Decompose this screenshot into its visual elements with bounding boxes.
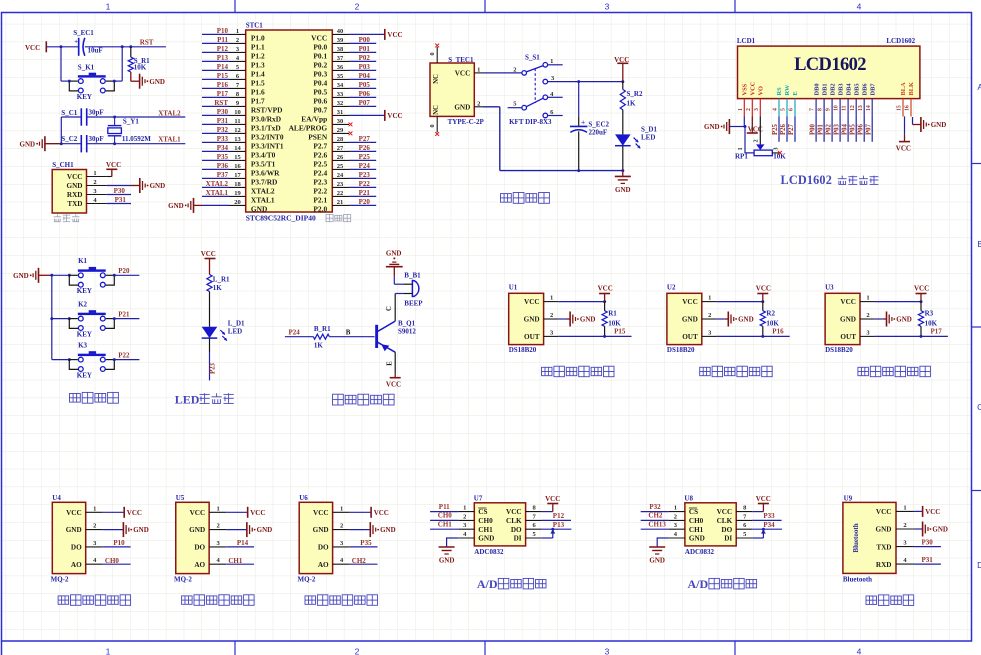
svg-text:VCC: VCC <box>66 509 82 517</box>
svg-text:P11: P11 <box>439 503 450 511</box>
svg-text:24: 24 <box>337 172 344 179</box>
svg-text:P03: P03 <box>833 123 840 135</box>
ground GND (U3 pin2) <box>875 318 883 320</box>
svg-text:VCC: VCC <box>914 285 929 293</box>
svg-text:6: 6 <box>789 108 795 111</box>
svg-text:10K: 10K <box>608 319 621 327</box>
svg-text:2: 2 <box>866 312 869 319</box>
wire U7 CS input <box>430 511 458 513</box>
svg-text:P1.5: P1.5 <box>251 78 265 87</box>
svg-text:DB5: DB5 <box>853 83 860 95</box>
zone dividers bottom <box>234 641 236 655</box>
wire U7 DO to P13 <box>542 528 572 530</box>
wire P30 (S_CH1 pin3) <box>107 194 131 196</box>
wire U7 DI riser <box>542 537 553 539</box>
svg-text:KEY: KEY <box>77 287 92 295</box>
svg-text:P1.0: P1.0 <box>251 33 265 42</box>
svg-text:12: 12 <box>850 105 856 111</box>
svg-text:AO: AO <box>71 561 82 569</box>
ground GND (U8 pin4) <box>657 538 669 547</box>
svg-text:P05: P05 <box>849 123 856 135</box>
svg-text:+: + <box>74 39 78 46</box>
svg-text:P17: P17 <box>931 328 943 336</box>
svg-text:CH0: CH0 <box>689 517 704 525</box>
svg-text:A/D: A/D <box>477 577 498 591</box>
svg-text:OUT: OUT <box>524 333 540 341</box>
power port VCC (S_CH1 pin1) <box>107 176 112 178</box>
ground GND (U5 pin2) <box>226 529 247 531</box>
svg-text:KFT DIP-8X3: KFT DIP-8X3 <box>509 118 552 126</box>
svg-text:2: 2 <box>903 522 906 529</box>
svg-text:P3.1/TxD: P3.1/TxD <box>251 123 281 132</box>
svg-text:L_D1: L_D1 <box>228 319 245 327</box>
power port VCC (U6 pin1) <box>350 511 371 513</box>
svg-text:VCC: VCC <box>524 298 540 306</box>
svg-text:P04: P04 <box>841 123 848 135</box>
svg-text:B: B <box>977 239 981 249</box>
svg-text:VSS: VSS <box>742 83 749 95</box>
svg-text:S_K1: S_K1 <box>78 63 95 71</box>
wire U6 DO to P35 <box>350 546 378 548</box>
svg-text:1: 1 <box>866 295 869 302</box>
svg-text:XTAL1: XTAL1 <box>206 189 229 197</box>
title smoke module (U4) <box>58 595 131 606</box>
svg-text:P2.2: P2.2 <box>313 186 327 195</box>
svg-text:20: 20 <box>234 199 241 206</box>
svg-text:DO: DO <box>721 526 732 534</box>
svg-text:12: 12 <box>234 127 241 134</box>
svg-text:S9012: S9012 <box>398 327 416 335</box>
svg-text:DO: DO <box>318 544 329 552</box>
svg-text:P11: P11 <box>217 36 228 44</box>
svg-text:DB2: DB2 <box>829 83 836 95</box>
svg-text:S_EC1: S_EC1 <box>73 29 94 37</box>
title button circuit <box>70 392 119 403</box>
svg-text:U7: U7 <box>474 494 483 502</box>
wire U7 CLK to P12 <box>542 519 571 521</box>
svg-text:1: 1 <box>708 295 711 302</box>
ground GND (U2 pin2) <box>716 318 724 320</box>
svg-text:ADC0832: ADC0832 <box>685 548 715 556</box>
svg-text:1: 1 <box>550 58 553 65</box>
svg-text:STC89C52RC_DIP40: STC89C52RC_DIP40 <box>246 213 316 222</box>
svg-text:17: 17 <box>234 172 241 179</box>
svg-text:1: 1 <box>236 28 239 35</box>
wire key left riser <box>60 47 62 81</box>
svg-text:GND: GND <box>150 182 166 190</box>
svg-text:P00: P00 <box>359 36 371 44</box>
svg-text:15: 15 <box>234 154 241 161</box>
power port VCC (U5 pin1) <box>226 511 247 513</box>
power port VCC (lcd pin2) <box>751 117 753 134</box>
svg-text:P2.1: P2.1 <box>313 195 327 204</box>
svg-text:5: 5 <box>781 108 787 111</box>
svg-text:KEY: KEY <box>77 330 92 338</box>
svg-text:VCC: VCC <box>455 70 471 78</box>
svg-text:RW: RW <box>784 84 791 95</box>
svg-text:LCD1: LCD1 <box>737 37 756 45</box>
svg-text:11.0592M: 11.0592M <box>122 135 151 143</box>
svg-text:29: 29 <box>337 127 344 134</box>
svg-text:1K: 1K <box>627 100 637 108</box>
svg-text:P30: P30 <box>114 187 126 195</box>
svg-text:P00: P00 <box>809 123 816 135</box>
svg-text:2: 2 <box>217 523 220 530</box>
S_TEC1 pin2 wire down to gnd rail <box>474 106 483 108</box>
S_TEC1 pin1 wire to switch <box>474 72 483 74</box>
svg-text:P35: P35 <box>360 539 372 547</box>
svg-text:CH0: CH0 <box>105 557 120 565</box>
wire emitter <box>394 352 396 373</box>
wire base <box>329 336 374 338</box>
svg-text:P32: P32 <box>649 503 661 511</box>
svg-text:7: 7 <box>810 108 816 111</box>
svg-text:40: 40 <box>337 28 344 35</box>
svg-text:GND: GND <box>149 78 165 86</box>
svg-text:3: 3 <box>605 2 610 12</box>
resistor R2 10K <box>762 302 764 311</box>
svg-text:DS18B20: DS18B20 <box>825 346 853 354</box>
wire gnd rail <box>500 170 623 172</box>
potentiometer RP1 10K <box>756 144 764 150</box>
svg-text:U8: U8 <box>684 494 693 502</box>
svg-text:P17: P17 <box>217 90 229 98</box>
svg-text:10uF: 10uF <box>88 47 103 55</box>
svg-text:GND: GND <box>168 202 184 210</box>
ground GND (buttons) <box>38 268 40 283</box>
svg-text:MQ-2: MQ-2 <box>174 576 192 584</box>
svg-text:P13: P13 <box>553 521 565 529</box>
svg-text:P12: P12 <box>217 45 229 53</box>
svg-text:P3.0/RxD: P3.0/RxD <box>251 114 281 123</box>
svg-text:P30: P30 <box>217 108 229 116</box>
svg-text:GND: GND <box>524 316 540 324</box>
svg-text:10: 10 <box>834 105 840 111</box>
svg-text:26: 26 <box>337 154 344 161</box>
svg-text:VCC: VCC <box>840 298 856 306</box>
wire P24 to B_R1 <box>285 336 313 338</box>
switch stub pin6 <box>548 115 563 117</box>
svg-text:2: 2 <box>477 100 480 107</box>
svg-text:VCC: VCC <box>750 81 757 95</box>
power port VCC (buzzer) <box>394 373 396 377</box>
svg-text:U3: U3 <box>825 284 834 292</box>
ground GND (S_CH1 pin2) <box>107 185 131 187</box>
lcd data wires DB0-DB7 <box>815 117 817 142</box>
svg-text:DO: DO <box>194 544 205 552</box>
svg-text:VCC: VCC <box>756 285 771 293</box>
resistor L_R1 1K <box>207 275 212 292</box>
ground GND (U7 pin4) <box>447 538 459 547</box>
svg-text:1: 1 <box>737 147 744 150</box>
svg-text:DI: DI <box>724 535 732 543</box>
svg-text:P33: P33 <box>763 512 775 520</box>
svg-text:PSEN: PSEN <box>308 132 328 141</box>
wire U8 CH1 input <box>641 528 669 530</box>
svg-text:1: 1 <box>106 647 111 655</box>
svg-text:U6: U6 <box>299 494 308 502</box>
svg-text:RXD: RXD <box>67 191 83 199</box>
svg-text:27: 27 <box>337 145 344 152</box>
resistor S_R1 10K <box>130 47 132 57</box>
svg-text:P0.7: P0.7 <box>313 105 327 114</box>
svg-text:OUT: OUT <box>840 333 856 341</box>
wire collector <box>394 294 396 322</box>
svg-text:16: 16 <box>234 163 241 170</box>
svg-text:P22: P22 <box>359 180 371 188</box>
svg-text:D: D <box>977 560 981 570</box>
svg-text:8: 8 <box>818 108 824 111</box>
wire C1-C2 riser <box>60 117 62 144</box>
svg-text:S_CH1: S_CH1 <box>52 161 74 169</box>
svg-text:2: 2 <box>674 513 677 520</box>
svg-text:P03: P03 <box>359 63 371 71</box>
svg-text:P06: P06 <box>359 90 371 98</box>
svg-text:S_R2: S_R2 <box>627 90 643 98</box>
svg-text:B_R1: B_R1 <box>314 325 331 333</box>
svg-text:NC: NC <box>433 105 440 115</box>
svg-text:CH0: CH0 <box>478 517 493 525</box>
svg-text:1: 1 <box>106 2 111 12</box>
svg-text:B: B <box>346 328 351 336</box>
svg-text:18: 18 <box>234 181 241 188</box>
svg-text:P3.5/T1: P3.5/T1 <box>251 159 276 168</box>
mcu right pins 21-40 <box>332 33 349 35</box>
wire XTAL2 row <box>61 116 81 118</box>
svg-text:P07: P07 <box>865 123 872 135</box>
lcd LCD1602 body <box>738 46 920 99</box>
svg-text:P0.2: P0.2 <box>313 60 327 69</box>
svg-text:XTAL2: XTAL2 <box>158 110 181 118</box>
svg-text:33: 33 <box>337 91 344 98</box>
svg-text:1: 1 <box>93 505 96 512</box>
svg-text:11: 11 <box>842 105 848 111</box>
svg-text:CH0: CH0 <box>438 512 453 520</box>
svg-text:1: 1 <box>93 170 96 177</box>
power port VCC (U8 pin8) <box>752 511 763 513</box>
svg-text:DS18B20: DS18B20 <box>667 346 695 354</box>
svg-text:2: 2 <box>340 523 343 530</box>
svg-text:P24: P24 <box>289 328 301 336</box>
S_TEC1 shell pins with no-connect <box>436 47 438 63</box>
svg-text:P34: P34 <box>217 144 229 152</box>
svg-text:GND: GND <box>13 272 29 280</box>
svg-text:U2: U2 <box>667 284 676 292</box>
svg-text:P26: P26 <box>780 123 787 135</box>
svg-text:38: 38 <box>337 46 344 53</box>
svg-text:36: 36 <box>337 64 344 71</box>
mcu left pins 1-20 <box>229 33 246 35</box>
svg-text:16: 16 <box>905 105 911 111</box>
svg-text:VCC: VCC <box>374 509 389 517</box>
wire led to P23 <box>209 338 211 352</box>
ground GND (reset) <box>130 72 132 81</box>
wire buzzer pins <box>403 283 412 285</box>
svg-text:GND: GND <box>931 121 947 129</box>
svg-text:GND: GND <box>67 182 83 190</box>
svg-text:VCC: VCC <box>250 509 265 517</box>
svg-text:30pF: 30pF <box>89 109 104 117</box>
svg-text:P31: P31 <box>217 117 229 125</box>
svg-text:GND: GND <box>615 186 631 194</box>
svg-text:GND: GND <box>649 557 665 565</box>
wire U2 pin1 to VCC <box>716 301 762 303</box>
title bluetooth module <box>866 595 914 606</box>
svg-text:CH2: CH2 <box>648 512 663 520</box>
svg-text:P02: P02 <box>825 123 832 135</box>
svg-text:MQ-2: MQ-2 <box>298 576 316 584</box>
svg-text:RXD: RXD <box>876 561 892 569</box>
svg-text:DO: DO <box>511 526 522 534</box>
wire S_EC1 to RST <box>85 46 166 48</box>
svg-text:E: E <box>792 91 799 95</box>
svg-text:VCC: VCC <box>756 495 771 503</box>
svg-text:TXD: TXD <box>876 543 891 551</box>
svg-text:2: 2 <box>753 139 760 142</box>
power port VCC (U3) <box>920 294 922 302</box>
svg-text:CH13: CH13 <box>648 520 666 528</box>
svg-text:P30: P30 <box>922 539 934 547</box>
svg-text:3: 3 <box>754 108 760 111</box>
svg-text:34: 34 <box>337 82 344 89</box>
svg-text:1K: 1K <box>314 341 324 349</box>
svg-text:VCC: VCC <box>598 285 613 293</box>
svg-text:OUT: OUT <box>682 333 698 341</box>
svg-text:P07: P07 <box>359 99 371 107</box>
svg-text:AO: AO <box>194 561 205 569</box>
svg-text:K1: K1 <box>78 257 87 265</box>
svg-text:3: 3 <box>605 647 610 655</box>
svg-text:P12: P12 <box>553 512 565 520</box>
svg-text:B_B1: B_B1 <box>404 271 421 279</box>
svg-text:P26: P26 <box>359 144 371 152</box>
svg-text:39: 39 <box>337 37 344 44</box>
svg-text:P01: P01 <box>359 45 371 53</box>
svg-text:VCC: VCC <box>925 508 940 516</box>
svg-text:P34: P34 <box>763 521 775 529</box>
svg-text:P3.6/WR: P3.6/WR <box>251 168 280 177</box>
svg-text:GND: GND <box>689 535 705 543</box>
svg-text:P04: P04 <box>359 72 371 80</box>
wire U1 pin1 to VCC <box>558 301 604 303</box>
svg-text:RS: RS <box>776 87 783 96</box>
svg-text:P31: P31 <box>922 556 934 564</box>
svg-text:GND: GND <box>251 204 267 213</box>
svg-text:P20: P20 <box>359 198 371 206</box>
wire U4 DO to P10 <box>103 546 131 548</box>
svg-text:CH1: CH1 <box>228 557 243 565</box>
svg-text:1: 1 <box>340 505 343 512</box>
power port VCC (U7 pin8) <box>542 511 553 513</box>
svg-text:1: 1 <box>477 67 480 74</box>
wire key K1 to P20 <box>114 274 139 276</box>
capacitor S_EC1 10uF <box>78 38 80 56</box>
title buzzer circuit <box>333 394 395 405</box>
svg-text:13: 13 <box>234 136 241 143</box>
switch stub pin4 <box>548 96 563 98</box>
svg-text:P21: P21 <box>118 310 130 318</box>
svg-text:P14: P14 <box>237 539 249 547</box>
svg-text:VCC: VCC <box>25 44 40 52</box>
svg-text:S_Y1: S_Y1 <box>123 117 139 125</box>
svg-text:KEY: KEY <box>77 93 92 101</box>
switch stub pin5 <box>508 107 522 109</box>
svg-text:GND: GND <box>682 316 698 324</box>
resistor B_R1 1K <box>313 334 329 339</box>
svg-text:0: 0 <box>429 52 436 55</box>
svg-text:DB1: DB1 <box>821 83 828 95</box>
ground GND (U9 pin2) <box>914 528 923 530</box>
svg-text:P02: P02 <box>359 54 371 62</box>
svg-text:VCC: VCC <box>313 509 329 517</box>
svg-text:VCC: VCC <box>127 509 142 517</box>
ground GND (crystal) <box>44 136 46 151</box>
svg-text:L_R1: L_R1 <box>213 276 230 284</box>
svg-text:P3.7/RD: P3.7/RD <box>251 177 277 186</box>
svg-text:VCC: VCC <box>201 250 216 258</box>
svg-text:2: 2 <box>93 523 96 530</box>
svg-text:K3: K3 <box>78 342 87 350</box>
svg-text:P2.0: P2.0 <box>313 204 327 213</box>
resistor R1 10K <box>604 302 606 311</box>
wire U7 CH1 input <box>430 528 458 530</box>
svg-text:BLK: BLK <box>908 82 915 96</box>
svg-text:P22: P22 <box>118 351 130 359</box>
power port VCC (U1) <box>604 294 606 302</box>
svg-text:2: 2 <box>93 179 96 186</box>
svg-text:P2.6: P2.6 <box>313 150 327 159</box>
zone dividers top <box>234 0 236 13</box>
wire U9 RXD to P31 <box>914 563 941 565</box>
svg-text:GND: GND <box>189 526 205 534</box>
svg-text:1: 1 <box>738 108 744 111</box>
svg-text:RST: RST <box>140 38 154 46</box>
svg-text:VCC: VCC <box>106 161 121 169</box>
svg-text:A: A <box>977 82 981 92</box>
svg-text:P32: P32 <box>217 126 229 134</box>
svg-text:VCC: VCC <box>545 495 560 503</box>
svg-text:LCD1602: LCD1602 <box>781 173 833 187</box>
svg-text:30: 30 <box>337 118 344 125</box>
svg-text:25: 25 <box>337 163 344 170</box>
svg-text:GND: GND <box>257 526 273 534</box>
svg-text:LED: LED <box>228 328 242 336</box>
svg-text:19: 19 <box>234 190 241 197</box>
svg-text:P0.6: P0.6 <box>313 96 327 105</box>
svg-text:P25: P25 <box>359 153 371 161</box>
ground GND (mcu pin20) <box>193 198 195 213</box>
svg-text:LCD1602: LCD1602 <box>794 55 866 75</box>
svg-text:S_EC2: S_EC2 <box>588 121 609 129</box>
svg-text:CLK: CLK <box>717 517 733 525</box>
svg-text:P1.3: P1.3 <box>251 60 265 69</box>
svg-text:DI: DI <box>514 535 522 543</box>
svg-text:10K: 10K <box>134 63 147 71</box>
wire VSS to RP1 <box>743 117 745 127</box>
svg-text:VCC: VCC <box>387 31 402 39</box>
svg-text:GND: GND <box>704 123 720 131</box>
label MCU chinese <box>326 215 351 222</box>
svg-text:GND: GND <box>896 316 912 324</box>
svg-text:21: 21 <box>337 199 344 206</box>
svg-text:P05: P05 <box>359 81 371 89</box>
svg-text:P2.7: P2.7 <box>313 141 327 150</box>
svg-text:P1.4: P1.4 <box>251 69 265 78</box>
svg-text:2: 2 <box>513 66 516 73</box>
svg-text:DB6: DB6 <box>861 83 868 96</box>
svg-text:S_D1: S_D1 <box>641 126 657 134</box>
wire VCC rail <box>548 81 623 83</box>
